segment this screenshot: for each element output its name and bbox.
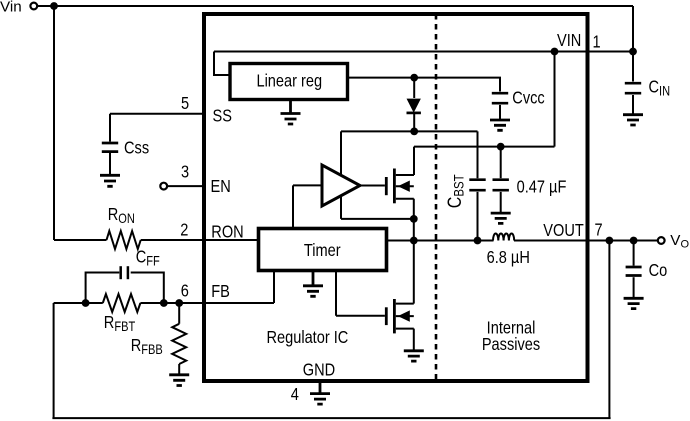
resistor RFBB xyxy=(172,303,186,375)
wire VIN drain rail xyxy=(414,52,555,176)
svg-text:7: 7 xyxy=(595,220,603,240)
node junction Vin xyxy=(50,2,58,10)
svg-text:Timer: Timer xyxy=(304,241,341,261)
wire SW node line xyxy=(387,240,658,242)
ground low-side source xyxy=(404,351,424,361)
wire top right drop to VIN line xyxy=(632,6,634,82)
node junction VO drop xyxy=(606,237,614,245)
transistor Q2 low-side MOSFET xyxy=(386,299,414,351)
wire RON line xyxy=(54,239,259,241)
node junction VIN/CIN xyxy=(629,48,637,56)
svg-text:6: 6 xyxy=(181,281,189,301)
capacitor CFF xyxy=(86,247,164,303)
wire EN xyxy=(167,185,204,187)
svg-text:RON: RON xyxy=(211,222,243,242)
svg-text:Vin: Vin xyxy=(0,0,22,16)
capacitor Css xyxy=(102,138,149,175)
svg-text:Co: Co xyxy=(649,261,668,281)
node junction Co xyxy=(630,237,638,245)
box Linear reg U2 xyxy=(230,64,348,100)
wire low-side drain xyxy=(413,241,415,304)
ground 0.47uF xyxy=(491,213,511,223)
node Vin terminal xyxy=(30,3,37,10)
svg-text:2: 2 xyxy=(180,220,188,240)
IC box (Regulator IC outline) xyxy=(204,14,588,381)
node junction boot rail xyxy=(410,127,418,135)
svg-text:Css: Css xyxy=(124,138,149,158)
ground Cvcc xyxy=(490,120,510,130)
resistor RFBT xyxy=(103,294,141,312)
inductor L1 6.8uH xyxy=(493,234,514,241)
wire Vin top rail xyxy=(37,5,633,7)
node VO terminal xyxy=(658,237,665,244)
capacitor Cvcc xyxy=(492,88,545,120)
wire Vin left drop to RON xyxy=(53,6,55,240)
node junction SW/FET xyxy=(410,237,418,245)
capacitor CIN xyxy=(625,77,670,115)
ground CIN xyxy=(623,115,643,125)
wire FB line xyxy=(54,271,274,304)
node junction VIN internal drop xyxy=(551,48,559,56)
svg-text:VOUT: VOUT xyxy=(543,221,584,241)
diode D1 xyxy=(407,78,421,132)
wire driver return xyxy=(341,197,414,219)
svg-text:EN: EN xyxy=(211,177,231,197)
wire low-side gate from Timer xyxy=(336,271,385,316)
wire driver input xyxy=(293,185,322,228)
capacitor Co xyxy=(626,241,668,299)
ground Css xyxy=(100,175,120,186)
svg-text:FB: FB xyxy=(211,281,230,301)
ground GND pin xyxy=(310,383,330,404)
wire FB left drop xyxy=(53,303,55,418)
node EN terminal xyxy=(160,183,167,190)
node junction driver return xyxy=(410,215,418,223)
svg-text:5: 5 xyxy=(181,94,189,114)
node junction FB left xyxy=(82,299,90,307)
dashed divider between Regulator IC and Internal Passives xyxy=(435,14,438,379)
ground RFBB xyxy=(169,375,189,386)
svg-text:3: 3 xyxy=(181,162,189,182)
svg-text:1: 1 xyxy=(593,32,601,52)
wire SS line xyxy=(110,114,204,142)
capacitor 0.47uF xyxy=(493,147,567,214)
ground Co xyxy=(624,298,644,308)
op-amp driver U3 (gate driver triangle) xyxy=(322,165,360,206)
wire boot rail xyxy=(341,131,478,178)
svg-text:4: 4 xyxy=(291,384,299,404)
svg-text:Regulator IC: Regulator IC xyxy=(266,327,348,347)
capacitor CBST xyxy=(443,174,485,240)
node junction 0.47uF top xyxy=(497,143,505,151)
svg-text:Linear reg: Linear reg xyxy=(256,71,322,91)
node junction CFF right xyxy=(160,299,168,307)
node junction diode anode xyxy=(410,74,418,82)
svg-text:GND: GND xyxy=(303,360,335,380)
svg-text:Cvcc: Cvcc xyxy=(512,88,544,108)
transistor Q1 high-side MOSFET xyxy=(360,169,414,241)
node junction CBST bottom xyxy=(474,237,482,245)
box Timer xyxy=(259,229,387,271)
wire bottom rail xyxy=(52,417,610,419)
wire VIN pin rail xyxy=(214,52,633,76)
wire VO right drop xyxy=(608,241,610,419)
svg-text:6.8 µH: 6.8 µH xyxy=(487,247,530,267)
ground Linear reg xyxy=(281,100,301,125)
svg-text:0.47 µF: 0.47 µF xyxy=(517,177,567,197)
wire Linear reg output rail xyxy=(348,78,501,92)
svg-text:Passives: Passives xyxy=(482,334,540,354)
svg-text:SS: SS xyxy=(213,106,233,126)
ground Timer xyxy=(303,271,323,297)
node junction RFBB top xyxy=(175,299,183,307)
resistor RON xyxy=(107,231,141,249)
wire VOUT to VO xyxy=(634,240,658,242)
svg-text:VIN: VIN xyxy=(557,30,581,50)
